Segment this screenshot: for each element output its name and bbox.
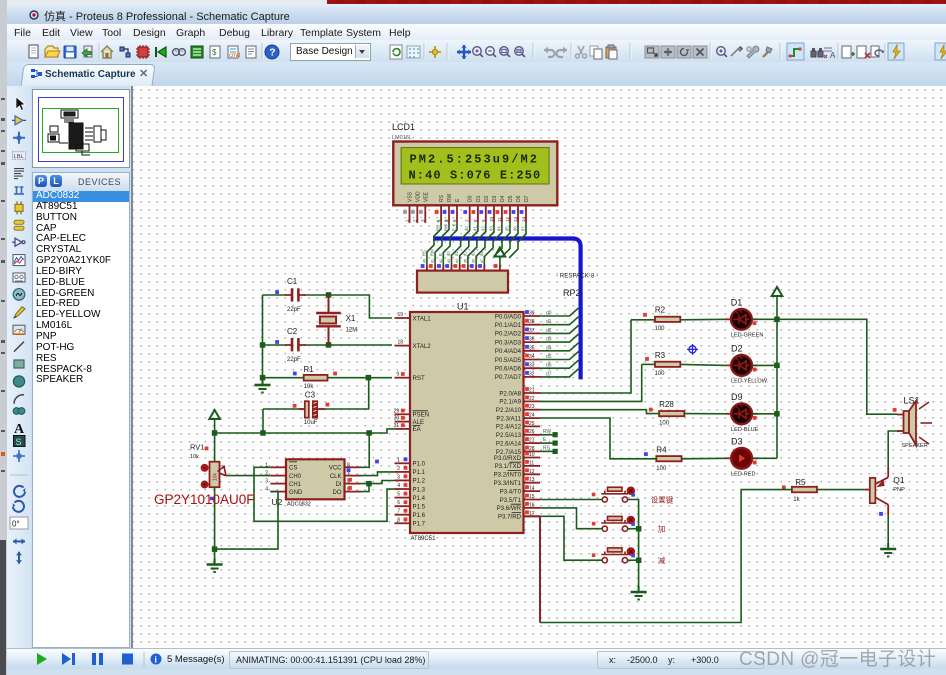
svg-text:D1: D1 <box>476 195 482 202</box>
svg-text:34: 34 <box>529 354 535 360</box>
svg-text:N:40 S:076 E:250: N:40 S:076 E:250 <box>409 168 542 182</box>
svg-text:100: 100 <box>655 326 666 332</box>
svg-text:P2.5/A13: P2.5/A13 <box>496 432 522 439</box>
svg-text:3: 3 <box>397 474 400 480</box>
svg-text:D6: D6 <box>516 195 522 202</box>
wire U2 CS long route to P1.3 <box>254 467 395 521</box>
svg-text:DO: DO <box>333 490 342 496</box>
svg-text:P1.2: P1.2 <box>413 478 426 485</box>
svg-text:15: 15 <box>529 494 535 500</box>
svg-text:d4: d4 <box>546 345 552 351</box>
resistor pack RP2 pins <box>426 265 428 271</box>
wire RV1 bottom to ground <box>214 487 216 564</box>
wire buttons right common to ground <box>628 500 639 591</box>
svg-text:D7: D7 <box>524 195 530 202</box>
wire LS1 bottom to Q1 <box>888 431 903 467</box>
svg-text:RP2: RP2 <box>563 288 581 298</box>
led D3 LED-RED <box>731 448 752 469</box>
svg-text:21: 21 <box>529 388 535 394</box>
svg-text:38: 38 <box>529 319 535 325</box>
svg-text:CH1: CH1 <box>289 482 302 488</box>
svg-text:d5: d5 <box>463 259 467 263</box>
svg-text:R28: R28 <box>659 400 674 409</box>
svg-text:16: 16 <box>529 502 535 508</box>
wire P3.7 pin to bend <box>524 515 541 517</box>
svg-text:P3.0/RXD: P3.0/RXD <box>494 455 522 462</box>
svg-text:P3.6/WR: P3.6/WR <box>497 505 522 512</box>
svg-text:4: 4 <box>265 487 268 493</box>
svg-text:11: 11 <box>497 217 502 222</box>
svg-text:P3.4/T0: P3.4/T0 <box>500 488 522 495</box>
svg-text:P2.6/A14: P2.6/A14 <box>496 440 522 447</box>
svg-text:RS: RS <box>421 250 426 256</box>
svg-text:R5: R5 <box>795 478 806 487</box>
svg-text:d6: d6 <box>546 363 552 369</box>
wire LS1 top terminal lead <box>897 415 904 432</box>
svg-text:d4: d4 <box>455 259 459 263</box>
wire P2.2 to R28 <box>540 410 659 414</box>
wire R5 to Q1 base <box>817 489 865 491</box>
svg-text:P0.6/AD6: P0.6/AD6 <box>495 366 522 373</box>
svg-text:2: 2 <box>265 471 268 477</box>
svg-text:10k: 10k <box>304 384 315 390</box>
svg-text:d4: d4 <box>496 226 501 231</box>
U1 P2.0-P2.7 pins <box>524 392 541 394</box>
resistor pack RP2 body <box>417 271 508 293</box>
svg-text:D4: D4 <box>500 195 506 202</box>
svg-text:1: 1 <box>397 457 400 463</box>
svg-text:- RESPACK-8 -: - RESPACK-8 - <box>556 273 598 280</box>
svg-text:13: 13 <box>529 477 535 483</box>
svg-text:P1.3: P1.3 <box>413 486 426 493</box>
svg-text:Q1: Q1 <box>893 475 905 485</box>
svg-text:RS: RS <box>543 445 551 451</box>
svg-text:R1: R1 <box>303 365 314 374</box>
svg-text:d4: d4 <box>479 251 484 256</box>
svg-text:P0.1/AD1: P0.1/AD1 <box>495 322 522 329</box>
U2 right pins <box>345 466 361 468</box>
svg-text:d6: d6 <box>472 259 476 263</box>
U1 left control pins <box>395 317 411 319</box>
svg-text:29: 29 <box>394 408 400 414</box>
svg-text:LS1: LS1 <box>904 396 920 406</box>
svg-text:22: 22 <box>529 396 535 402</box>
svg-text:14: 14 <box>521 216 526 222</box>
svg-text:P3.2/INT0: P3.2/INT0 <box>494 472 522 479</box>
svg-text:P2.2/A10: P2.2/A10 <box>496 407 522 414</box>
svg-text:D3: D3 <box>492 195 498 202</box>
svg-text:DI: DI <box>336 482 342 488</box>
svg-text:AT89C51: AT89C51 <box>411 536 437 542</box>
EA rail wire <box>215 429 395 433</box>
wire C1 to XTAL1 <box>329 295 393 318</box>
svg-text:39: 39 <box>529 311 535 317</box>
U1 P1.0-P1.7 pins <box>395 462 411 464</box>
svg-text:D5: D5 <box>508 195 514 202</box>
svg-text:VDD: VDD <box>415 191 421 202</box>
wire P3.7 to button3 <box>540 516 603 560</box>
svg-text:8: 8 <box>347 462 350 468</box>
wire U2 CLK to P1.1 <box>361 472 395 476</box>
svg-text:100: 100 <box>659 421 670 427</box>
svg-text:D0: D0 <box>468 195 474 202</box>
svg-text:13: 13 <box>513 216 518 222</box>
svg-text:31: 31 <box>394 423 400 429</box>
LCD LCD1 LM016L body <box>393 142 557 206</box>
svg-text:36: 36 <box>529 337 535 343</box>
wire U2 GND down to ground rail <box>215 492 278 549</box>
svg-text:VSS: VSS <box>408 191 414 202</box>
svg-text:减: 减 <box>658 555 666 565</box>
svg-text:P0.0/AD0: P0.0/AD0 <box>495 313 522 320</box>
svg-text:d0: d0 <box>546 311 552 317</box>
svg-text:LBL: LBL <box>14 154 24 160</box>
svg-text:8: 8 <box>397 517 400 523</box>
svg-text:d7: d7 <box>480 259 484 263</box>
wire P2.1 to R3 <box>540 364 642 401</box>
adc U2 ADC0832 body <box>286 459 345 499</box>
wires R to LED anodes <box>680 318 726 321</box>
svg-text:LM016L: LM016L <box>392 135 412 141</box>
svg-text:10k: 10k <box>213 472 219 481</box>
svg-text:CLK: CLK <box>330 474 342 480</box>
svg-text:XTAL2: XTAL2 <box>413 343 432 350</box>
svg-text:R4: R4 <box>656 446 667 455</box>
svg-text:P2.4/A12: P2.4/A12 <box>496 424 522 431</box>
svg-text:0°: 0° <box>12 520 20 529</box>
RP2 pin state squares <box>421 264 425 268</box>
svg-text:LED-GREEN: LED-GREEN <box>731 332 764 338</box>
svg-text:P1.1: P1.1 <box>413 469 426 476</box>
LED state squares <box>753 321 757 325</box>
svg-text:R2: R2 <box>655 306 666 315</box>
svg-text:P3.1/TXD: P3.1/TXD <box>495 463 522 470</box>
svg-text:d3: d3 <box>447 259 451 263</box>
wire P2.0 to R2 <box>540 320 631 393</box>
svg-text:P0.5/AD5: P0.5/AD5 <box>495 357 522 364</box>
svg-text:d2: d2 <box>546 328 552 334</box>
svg-text:d0: d0 <box>464 226 469 231</box>
svg-text:LED-RED: LED-RED <box>731 471 756 477</box>
wires P0 to bus with net labels d0-d7 <box>540 308 579 316</box>
wire U2 DI/DO junction to P1.2 <box>361 484 370 492</box>
svg-text:?: ? <box>269 48 275 59</box>
svg-text:P0.3/AD3: P0.3/AD3 <box>495 339 522 346</box>
svg-text:100: 100 <box>655 371 666 377</box>
wires LED cathodes to rail <box>752 318 777 320</box>
svg-text:10k: 10k <box>190 454 199 460</box>
svg-text:S: S <box>16 437 22 447</box>
svg-text:3: 3 <box>265 479 268 485</box>
wires LCD RS/RW/E and D0-D7 to RP2 (double-jog) <box>427 223 441 265</box>
origin marker <box>687 344 698 355</box>
svg-text:CH0: CH0 <box>289 474 302 480</box>
led D2 LED-YELLOW. <box>731 355 752 376</box>
svg-text:23: 23 <box>529 404 535 410</box>
svg-text:P0.7/AD7: P0.7/AD7 <box>495 374 522 381</box>
svg-text:24: 24 <box>529 413 535 419</box>
svg-text:1k: 1k <box>793 497 800 503</box>
svg-text:VCC: VCC <box>329 466 342 472</box>
svg-text:LED-BLUE: LED-BLUE <box>731 427 759 433</box>
LCD pin stubs 1-14 <box>409 205 411 223</box>
svg-text:P3.5/T1: P3.5/T1 <box>500 497 522 504</box>
svg-text:VEE: VEE <box>423 191 429 202</box>
svg-text:RW: RW <box>543 429 552 435</box>
svg-text:GP2Y1010AU0F: GP2Y1010AU0F <box>154 492 255 507</box>
wire VCC to U2 <box>361 433 370 467</box>
svg-text:RS: RS <box>439 194 445 202</box>
power flag above RV1 <box>209 410 220 419</box>
svg-text:ADC0832: ADC0832 <box>287 502 311 508</box>
svg-text:P3.7/RD: P3.7/RD <box>498 514 522 521</box>
svg-text:9: 9 <box>396 372 399 378</box>
svg-text:d6: d6 <box>513 226 518 231</box>
svg-text:设置键: 设置键 <box>651 495 674 505</box>
svg-text:d7: d7 <box>521 226 526 231</box>
svg-text:18: 18 <box>397 340 403 346</box>
svg-text:$: $ <box>212 48 217 57</box>
svg-text:19: 19 <box>397 312 403 318</box>
svg-text:32: 32 <box>529 371 535 377</box>
svg-text:GND: GND <box>289 490 303 496</box>
svg-text:P1.6: P1.6 <box>413 512 426 519</box>
svg-text:d5: d5 <box>505 226 510 231</box>
svg-text:RW_5: RW_5 <box>444 219 449 231</box>
svg-text:27: 27 <box>529 438 535 444</box>
svg-text:P2.0/A8: P2.0/A8 <box>499 390 521 397</box>
svg-text:d5: d5 <box>546 354 552 360</box>
svg-text:D3: D3 <box>731 436 743 446</box>
button 设置键 <box>601 487 628 502</box>
svg-text:22pF: 22pF <box>287 307 301 313</box>
wire P3.6 to button2 <box>540 508 603 529</box>
svg-text:RV1: RV1 <box>190 443 204 452</box>
wire P3.5 to button1 <box>540 499 603 501</box>
svg-text:P1.7: P1.7 <box>413 521 426 528</box>
svg-text:12: 12 <box>529 469 535 475</box>
svg-text:D2: D2 <box>731 343 743 353</box>
svg-text:d7: d7 <box>546 371 552 377</box>
svg-text:PM2.5:253u9/M2: PM2.5:253u9/M2 <box>410 153 540 167</box>
svg-text:EA: EA <box>413 426 422 433</box>
svg-text:PNP: PNP <box>893 487 905 493</box>
svg-text:ALE: ALE <box>413 419 425 426</box>
led D9 LED-BLUE <box>731 403 752 424</box>
svg-text:C3: C3 <box>305 390 316 399</box>
wire P2.3 to R4 <box>540 418 656 459</box>
svg-text:LED-YELLOW.: LED-YELLOW. <box>731 378 769 384</box>
svg-text:A: A <box>14 422 25 437</box>
svg-text:E: E <box>438 253 443 256</box>
svg-text:11: 11 <box>529 460 534 466</box>
svg-text:d0: d0 <box>446 251 451 256</box>
svg-text:RST: RST <box>413 375 425 382</box>
svg-text:d1: d1 <box>472 226 477 231</box>
svg-text:C2: C2 <box>287 327 298 336</box>
wire P3.7 net to R5 (red) <box>539 516 541 622</box>
svg-text:U1: U1 <box>457 302 469 312</box>
svg-text:P0.4/AD4: P0.4/AD4 <box>495 348 522 355</box>
wire RV1 wiper to U2 CH0 <box>220 473 227 475</box>
svg-text:12M: 12M <box>346 328 358 334</box>
svg-text:U2: U2 <box>272 497 283 507</box>
svg-text:d2: d2 <box>439 259 443 263</box>
svg-text:d2: d2 <box>462 251 467 256</box>
svg-text:100: 100 <box>656 466 667 472</box>
svg-text:12: 12 <box>505 216 510 222</box>
svg-text:14: 14 <box>529 486 535 492</box>
LCD pin state squares <box>403 210 407 214</box>
svg-text:D2: D2 <box>484 195 490 202</box>
svg-text:10: 10 <box>529 452 535 458</box>
svg-text:d2: d2 <box>480 226 485 231</box>
U2 state squares <box>375 460 379 464</box>
wire Q1 collector to ground <box>887 515 889 548</box>
svg-text:22pF: 22pF <box>287 357 301 363</box>
svg-text:d3: d3 <box>471 251 476 256</box>
svg-text:26: 26 <box>529 429 535 435</box>
U1 left pin state squares <box>401 372 405 376</box>
svg-text:PSEN: PSEN <box>413 412 430 419</box>
svg-text:P2.1/A9: P2.1/A9 <box>499 399 521 406</box>
svg-text:4: 4 <box>397 483 400 489</box>
svg-text:D1: D1 <box>731 297 743 307</box>
RV1 +/- buttons <box>201 465 208 472</box>
net label stubs RW E RS on P2.5-P2.7 <box>540 434 553 436</box>
U1 P0.0-P0.7 pins <box>524 315 541 317</box>
svg-text:D9: D9 <box>731 392 743 402</box>
svg-text:25: 25 <box>529 421 535 427</box>
svg-text:37: 37 <box>529 328 535 334</box>
svg-text:6: 6 <box>397 500 400 506</box>
svg-text:d3: d3 <box>546 337 552 343</box>
svg-text:10: 10 <box>489 216 494 222</box>
svg-text:C1: C1 <box>287 277 298 286</box>
svg-text:RW: RW <box>430 249 435 256</box>
svg-text:d3: d3 <box>489 226 494 231</box>
svg-text:R3: R3 <box>655 351 666 360</box>
svg-text:7: 7 <box>397 509 400 515</box>
svg-text:X1: X1 <box>346 314 356 323</box>
power flag on RP2 pin 9 <box>499 258 501 266</box>
svg-text:d1: d1 <box>546 319 552 325</box>
svg-text:LCD1: LCD1 <box>392 122 415 132</box>
svg-text:35: 35 <box>529 345 535 351</box>
svg-text:E_6: E_6 <box>452 223 457 231</box>
wire C1/C2 left vertical <box>262 295 264 379</box>
svg-text:A: A <box>830 51 836 60</box>
svg-text:RS_4: RS_4 <box>436 220 441 231</box>
svg-text:33: 33 <box>529 363 535 369</box>
svg-text:d0: d0 <box>422 259 426 263</box>
wire C3 left down to EA rail <box>262 409 264 433</box>
mcu U1 AT89C51 body <box>410 312 524 533</box>
svg-text:P1.4: P1.4 <box>413 495 426 502</box>
svg-text:加: 加 <box>658 524 666 534</box>
svg-text:RW: RW <box>447 193 453 202</box>
svg-text:d1: d1 <box>431 259 435 263</box>
svg-text:P3.3/INT1: P3.3/INT1 <box>494 480 522 487</box>
U2 left pins <box>270 466 286 468</box>
ground below C1/C2 <box>255 379 271 393</box>
svg-text:P2.3/A11: P2.3/A11 <box>496 415 521 422</box>
vcc rail right of LEDs <box>772 287 783 296</box>
bus (LCD data bus) <box>433 239 581 380</box>
button 减 <box>601 548 628 563</box>
svg-text:10uF: 10uF <box>304 420 318 426</box>
svg-text:cmd: cmd <box>229 53 240 59</box>
svg-text:P1.0: P1.0 <box>413 461 426 468</box>
wire D1 row to LS1 <box>777 319 898 414</box>
svg-text:P1.5: P1.5 <box>413 504 426 511</box>
svg-text:P0.2/AD2: P0.2/AD2 <box>495 331 522 338</box>
button 加 <box>601 516 628 531</box>
led D1 LED-GREEN <box>731 309 752 330</box>
svg-text:28: 28 <box>529 446 535 452</box>
svg-text:CS: CS <box>289 466 297 472</box>
svg-text:d1: d1 <box>454 251 459 256</box>
svg-text:2: 2 <box>397 466 400 472</box>
svg-text:30: 30 <box>394 416 400 422</box>
U1 P3.0-P3.7 pins <box>524 457 541 459</box>
svg-text:XTAL1: XTAL1 <box>413 315 432 322</box>
svg-text:5: 5 <box>397 492 400 498</box>
